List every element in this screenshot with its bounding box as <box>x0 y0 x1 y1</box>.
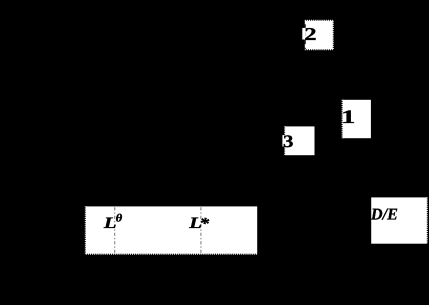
svg-text:1: 1 <box>341 107 355 128</box>
axis tick-label strip <box>86 206 257 253</box>
svg-text:3: 3 <box>283 132 293 151</box>
svg-text:D/E: D/E <box>370 205 398 223</box>
dash-dot reference line at L theta <box>114 207 116 253</box>
svg-text:θ: θ <box>116 212 123 224</box>
dash-dot reference line at L star <box>200 207 202 253</box>
label box 3 <box>282 126 314 155</box>
label box 2 <box>302 21 333 50</box>
svg-text:*: * <box>200 215 211 232</box>
x-axis label box D/E <box>370 197 427 243</box>
label box 1 <box>341 100 371 138</box>
svg-text:2: 2 <box>304 25 316 45</box>
